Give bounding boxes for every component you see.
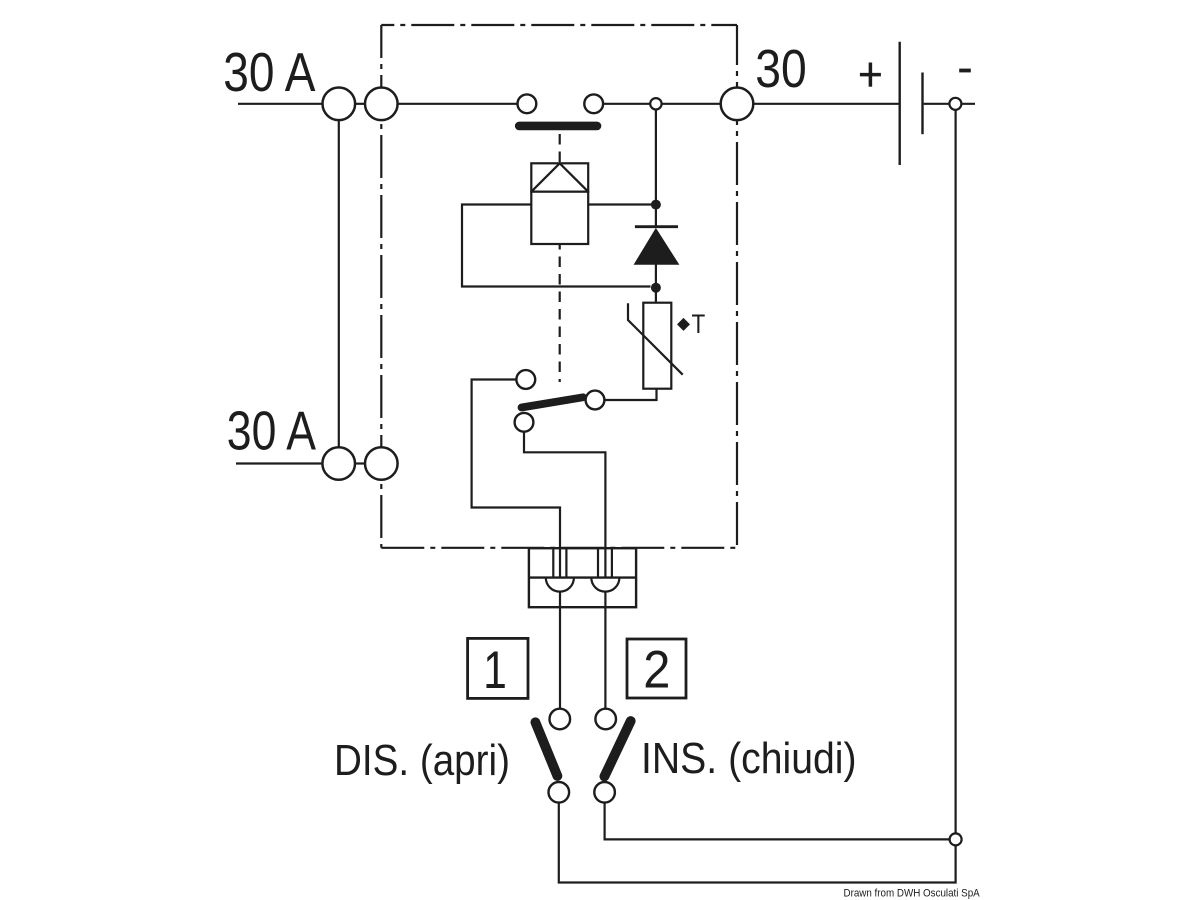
wire: enclosure edge terminal to relay fixed contact xyxy=(398,103,518,105)
svg-text:30 A: 30 A xyxy=(223,41,315,103)
wire: node to output terminal 30 xyxy=(662,103,721,105)
connector block divider xyxy=(529,576,636,578)
enclosure dash-dot box xyxy=(381,25,737,548)
svg-text:T: T xyxy=(692,311,706,340)
diode cathode bar xyxy=(635,225,678,228)
pushbutton 2 lever xyxy=(604,721,630,777)
label minus sign xyxy=(959,69,971,73)
wire: link between paired 30A terminals (bottom) xyxy=(355,462,365,464)
thermistor marker diamond xyxy=(677,318,690,331)
terminal 2 dome xyxy=(591,578,619,592)
pushbutton 1 lever xyxy=(535,722,557,776)
relay fixed contact right xyxy=(584,94,603,113)
wire: pushbutton 2 to negative node xyxy=(605,803,950,840)
relay switch common contact circle xyxy=(515,413,534,432)
wire: coil left lead loop xyxy=(462,205,651,287)
battery negative plate xyxy=(921,73,923,135)
svg-text:DIS. (apri): DIS. (apri) xyxy=(334,736,510,784)
pushbutton 2 bottom contact xyxy=(594,782,615,803)
node junction circle at negative bus bottom xyxy=(950,833,962,845)
terminal 1 dome xyxy=(546,578,574,592)
svg-text:Drawn from DWH Osculati SpA: Drawn from DWH Osculati SpA xyxy=(844,887,980,900)
battery node circle xyxy=(949,98,961,110)
connector block outline xyxy=(529,548,636,607)
pushbutton 1 bottom contact xyxy=(549,782,570,803)
diode triangle xyxy=(635,229,678,264)
relay contact bridge bar xyxy=(515,122,601,131)
svg-text:1: 1 xyxy=(483,642,507,701)
thermistor body xyxy=(643,303,671,389)
thermistor diagonal stroke xyxy=(628,303,683,374)
junction dot lower xyxy=(651,283,661,293)
wire: pushbutton 1 to negative bus bottom xyxy=(559,803,956,883)
svg-text:INS. (chiudi): INS. (chiudi) xyxy=(641,734,857,782)
wire: supply stub to top 30A terminal xyxy=(238,103,323,105)
svg-text:2: 2 xyxy=(643,640,670,699)
label box 1 xyxy=(468,638,528,698)
wire: relay contact to node xyxy=(603,103,650,105)
terminal circle 30A bottom left outer xyxy=(322,447,355,480)
label plus sign xyxy=(869,63,873,87)
label 1 xyxy=(483,642,507,701)
terminal circle 30A top on enclosure edge xyxy=(365,88,398,121)
pushbutton 1 top contact xyxy=(550,709,571,730)
label DIS. (apri) xyxy=(334,736,510,784)
wire: NC contact to connector terminal 1 xyxy=(472,380,560,709)
wire: negative bus vertical down right side xyxy=(954,110,956,834)
relay moving contact circle xyxy=(586,391,605,410)
terminal 1 slot xyxy=(552,548,554,577)
svg-text:30 A: 30 A xyxy=(227,400,317,461)
battery positive plate xyxy=(899,42,901,165)
relay coil armature box with triangle xyxy=(531,163,588,191)
credit line xyxy=(844,887,980,900)
relay switch lever xyxy=(522,397,584,407)
terminal circle 30A top left outer xyxy=(323,88,356,121)
svg-text:30: 30 xyxy=(755,39,806,99)
label 30 A (bottom) xyxy=(227,400,317,461)
junction dot upper xyxy=(651,200,661,210)
label box 2 xyxy=(627,639,686,698)
wire: link between paired 30A terminals (top) xyxy=(355,103,365,105)
relay coil box xyxy=(531,192,588,244)
wire: output terminal to battery plus xyxy=(753,103,899,105)
relay NC fixed contact circle xyxy=(516,370,535,389)
wire: battery minus to node xyxy=(924,103,975,105)
label INS. (chiudi) xyxy=(641,734,857,782)
terminal 2 slot xyxy=(597,548,599,577)
label T (thermal) xyxy=(692,311,706,340)
wire: supply stub to lower 30A terminal xyxy=(236,462,322,464)
wire: switch common to connector terminal 2 xyxy=(524,432,605,709)
wire: coil right lead xyxy=(588,203,656,205)
node junction circle top xyxy=(650,98,661,109)
wire: thermistor to relay moving contact xyxy=(605,389,657,400)
wire: diode anode down to thermistor xyxy=(655,264,657,303)
wire: vertical link between the two 30A terminal pairs xyxy=(338,120,340,447)
label 30 (battery feed) xyxy=(755,39,806,99)
wire: node down to diode cathode xyxy=(655,109,657,227)
relay fixed contact left xyxy=(518,94,537,113)
label 30 A (top) xyxy=(223,41,315,103)
output terminal circle 30 on enclosure right edge xyxy=(721,88,754,121)
label 2 xyxy=(643,640,670,699)
terminal circle 30A bottom on enclosure edge xyxy=(365,447,398,480)
mechanical linkage dashed line xyxy=(559,134,561,382)
pushbutton 2 top contact xyxy=(595,709,616,730)
